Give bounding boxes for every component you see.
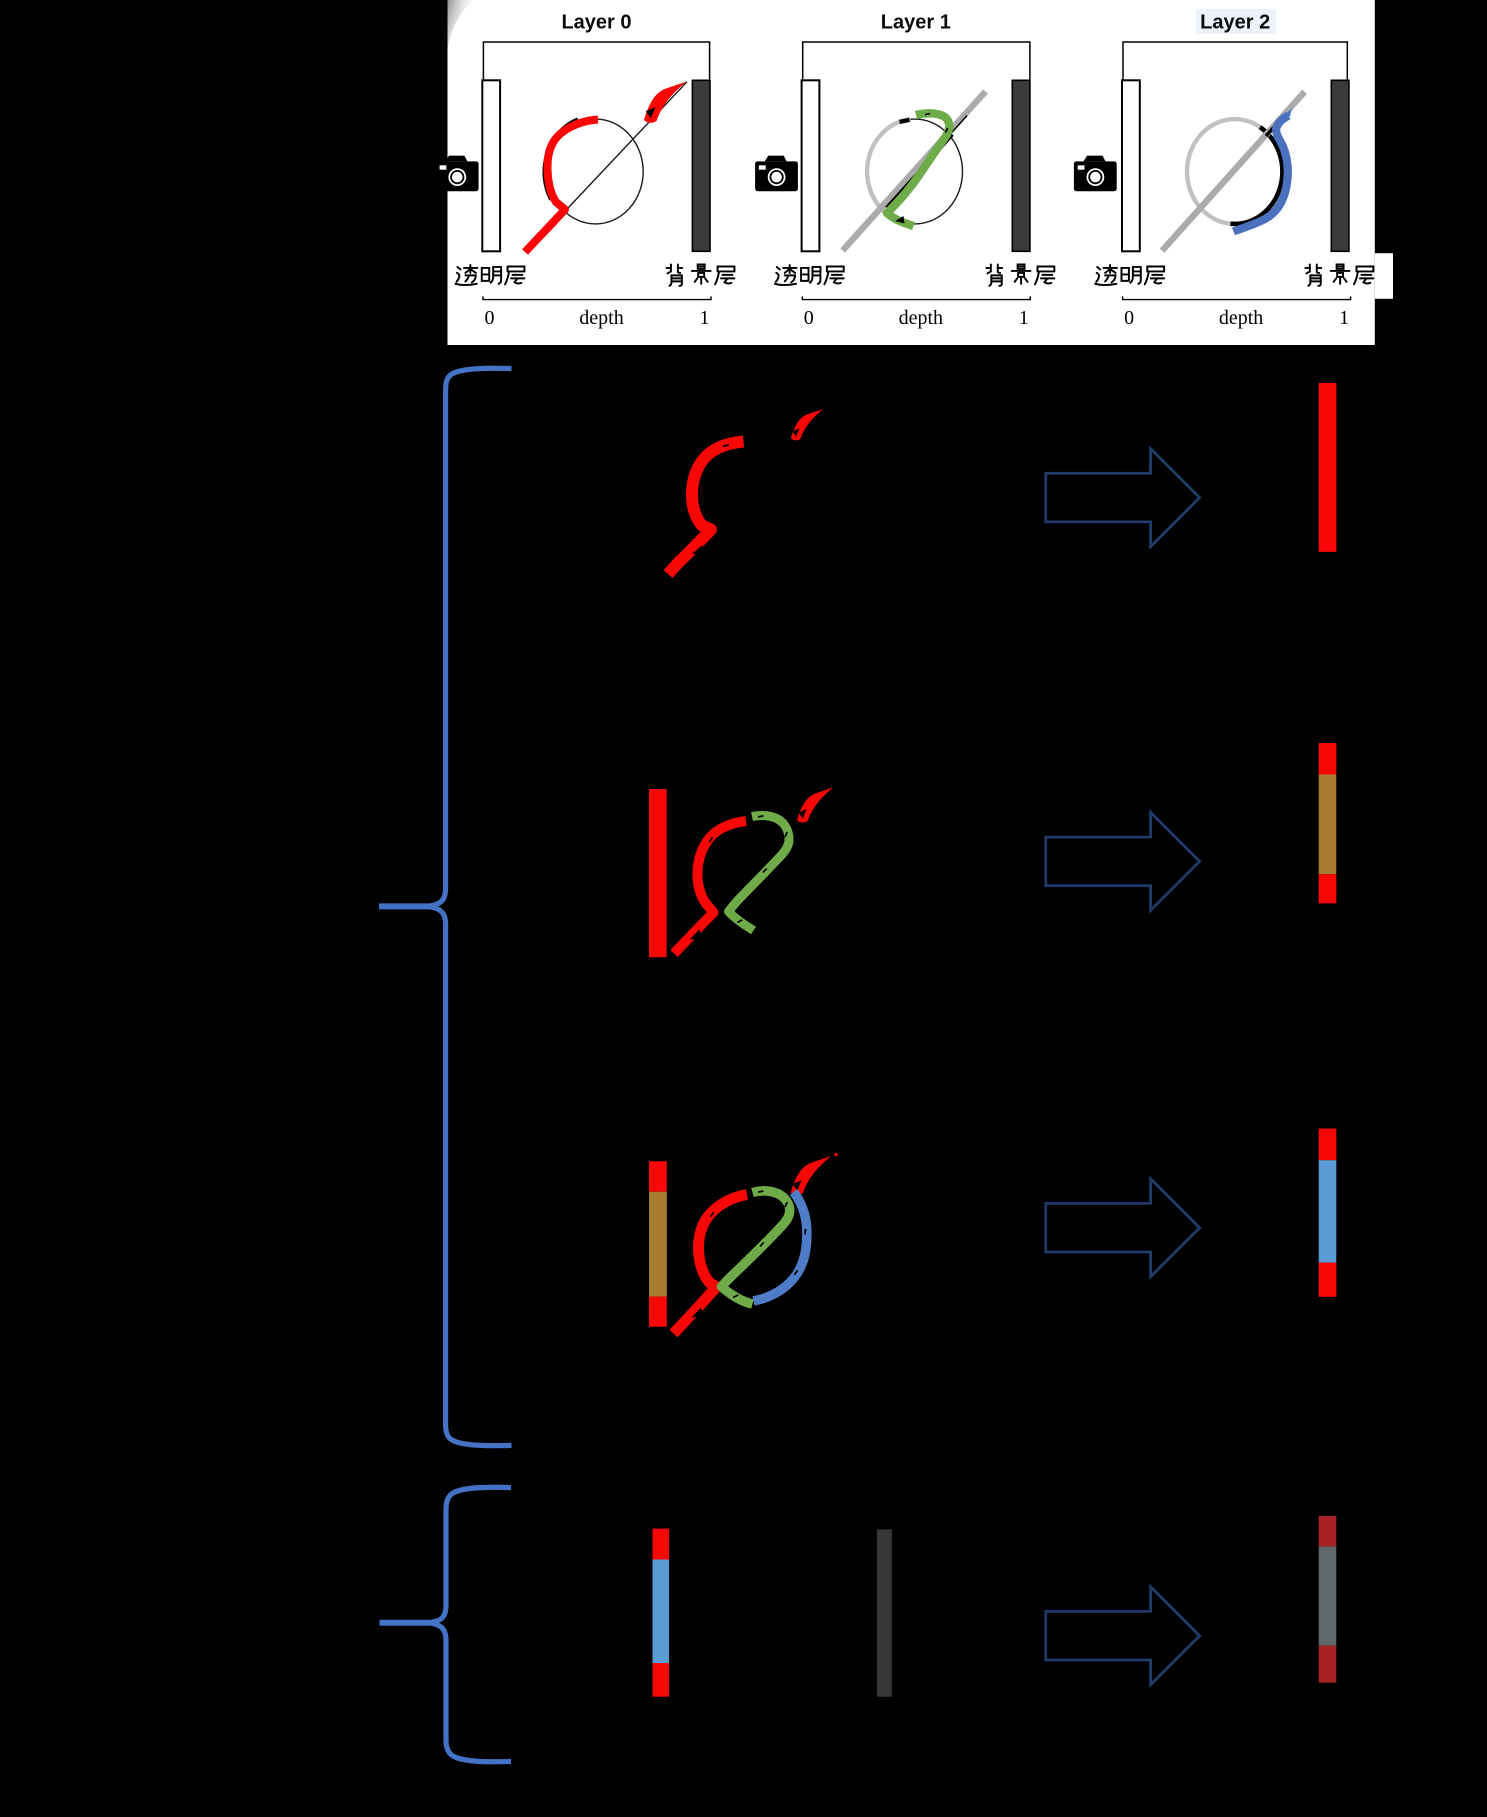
- row1 red curve: [668, 442, 744, 575]
- row2 red diagonal piece: [797, 788, 833, 823]
- row3 red curve: [674, 1195, 748, 1334]
- gray diagonal p1: [843, 92, 986, 251]
- transparent layer bar p2: [1122, 80, 1140, 251]
- camera p2: [1074, 156, 1117, 192]
- gray ring arc p1: [867, 119, 913, 224]
- blue tip p2: [1284, 108, 1292, 119]
- transparent layer bar p0: [482, 80, 500, 251]
- svg-text:0: 0: [804, 307, 814, 329]
- camera p0: [436, 156, 479, 192]
- background layer bar p2: [1331, 80, 1349, 251]
- diagonal ray p0: [528, 82, 687, 251]
- 背景层 p1: [986, 264, 1054, 285]
- small brace pointer line: [380, 1620, 435, 1626]
- svg-text:depth: depth: [899, 307, 943, 329]
- camera p1: [755, 156, 798, 192]
- big brace pointer line: [379, 903, 433, 909]
- svg-text:Layer 0: Layer 0: [561, 12, 631, 34]
- row2 red curve: [674, 821, 746, 954]
- svg-text:1: 1: [1339, 307, 1349, 329]
- dashes p1: [925, 113, 930, 116]
- black arc right p2: [1231, 127, 1283, 224]
- svg-text:Layer 1: Layer 1: [881, 12, 951, 34]
- black arrow tip p1: [895, 216, 905, 224]
- row3 black notch: [793, 1180, 802, 1190]
- black diagonal segment p2: [1266, 119, 1281, 136]
- svg-text:0: 0: [1124, 307, 1134, 329]
- arrowhead on ray p0: [648, 110, 658, 120]
- row4 dark gray bar: [877, 1529, 892, 1696]
- svg-text:depth: depth: [1219, 307, 1263, 329]
- row4 left bar red/blue/red: [653, 1529, 670, 1697]
- gray ring p2: [1187, 119, 1282, 224]
- svg-text:1: 1: [700, 307, 710, 329]
- green scribble p1: [887, 113, 949, 226]
- gray diagonal p2: [1162, 92, 1305, 251]
- depth axis p1: [802, 296, 1030, 299]
- svg-text:depth: depth: [579, 307, 623, 329]
- row3 output bar: [1319, 1129, 1337, 1297]
- row1 output bar: [1319, 383, 1337, 552]
- row3 green curve: [722, 1191, 790, 1304]
- row2 dashes: [758, 815, 764, 818]
- black diagonal segment p1: [887, 135, 953, 209]
- svg-text:Layer 2: Layer 2: [1200, 12, 1270, 34]
- top bracket p2: [1123, 42, 1347, 81]
- blue scribble p2: [1234, 116, 1289, 232]
- row3 dashes: [758, 1190, 764, 1192]
- 透明层 p0: [455, 265, 524, 285]
- white header panel: [448, 0, 1375, 345]
- row3 blue curve: [754, 1192, 807, 1301]
- row2 red bar: [649, 789, 667, 957]
- black notch p0: [646, 107, 656, 118]
- big curly brace: [429, 368, 512, 1445]
- 透明层 p1: [775, 265, 844, 285]
- ellipse object p0: [548, 119, 643, 224]
- row2 green curve: [729, 816, 790, 931]
- title Layer 2 highlight: [1196, 9, 1276, 34]
- row1 black notch: [792, 428, 799, 436]
- 透明层 p2: [1095, 265, 1164, 285]
- black wedge top p1: [900, 120, 910, 122]
- top bracket p0: [483, 42, 709, 81]
- row2 arrow: [1046, 812, 1200, 910]
- svg-text:1: 1: [1019, 307, 1029, 329]
- black thick arc behind red p0: [545, 120, 578, 200]
- thin black diagonal p1: [950, 116, 967, 135]
- row3 left bar red/gold/red: [649, 1161, 667, 1326]
- row3 arrow: [1046, 1179, 1200, 1277]
- red diagonal piece p0: [644, 82, 686, 123]
- row1 red diagonal piece: [791, 409, 823, 440]
- background layer bar p1: [1012, 80, 1030, 251]
- thin ellipse p1: [867, 119, 962, 224]
- top bracket p1: [803, 42, 1030, 81]
- row4 output bar: [1319, 1516, 1337, 1683]
- row2 black notch: [799, 809, 807, 818]
- row4 arrow: [1046, 1587, 1200, 1685]
- background layer bar p0: [692, 80, 710, 251]
- depth axis p0: [483, 296, 711, 299]
- row3 red diagonal piece: [791, 1156, 831, 1195]
- row2 output bar: [1319, 743, 1337, 903]
- small curly brace: [430, 1487, 511, 1762]
- row1 dashes: [702, 473, 705, 479]
- red scribble arc p0: [525, 120, 598, 253]
- corner smudge: [0, 0, 1, 1]
- svg-text:0: 0: [485, 307, 495, 329]
- transparent layer bar p1: [802, 80, 820, 251]
- 背景层 p0: [666, 264, 734, 285]
- row1 arrow: [1046, 449, 1200, 547]
- 背景层 p2: [1305, 264, 1373, 285]
- depth axis p2: [1123, 296, 1351, 299]
- white label box overhang (panel 2 bg layer label): [1375, 253, 1393, 299]
